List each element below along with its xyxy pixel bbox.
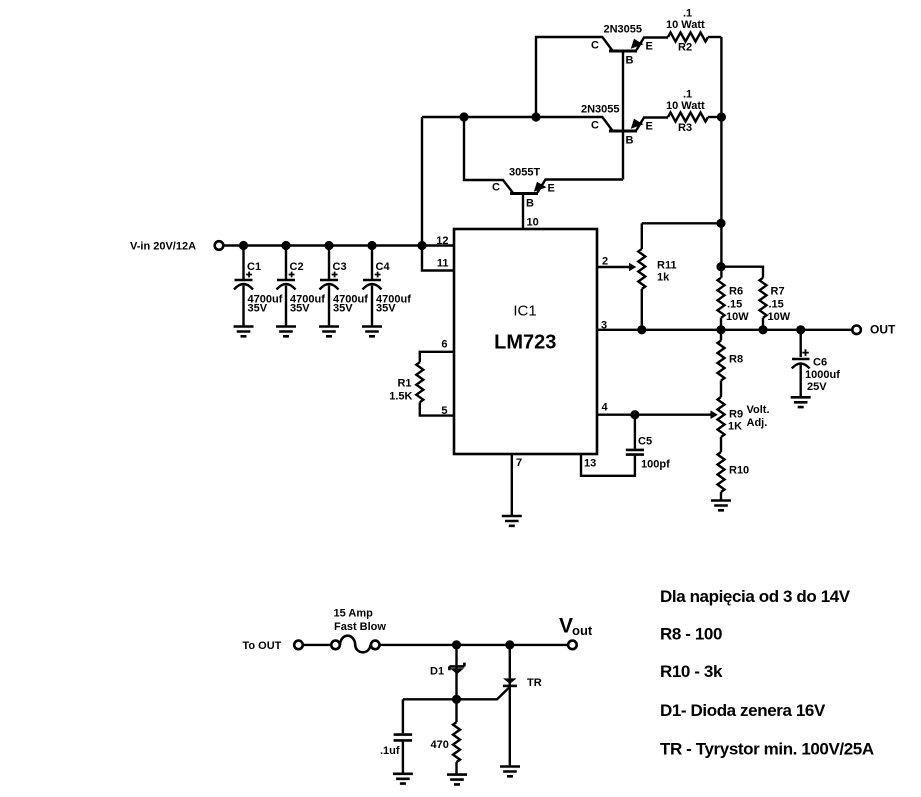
svg-text:.1: .1 [683,89,692,101]
svg-text:C4: C4 [376,261,391,273]
svg-text:470: 470 [431,739,449,751]
svg-text:E: E [646,41,653,53]
svg-text:10 Watt: 10 Watt [666,100,705,112]
svg-text:.15: .15 [727,299,742,311]
svg-text:.15: .15 [769,299,784,311]
svg-text:LM723: LM723 [494,332,556,354]
svg-text:C6: C6 [813,357,827,369]
svg-text:35V: 35V [248,303,268,315]
svg-text:C5: C5 [638,436,652,448]
svg-text:V: V [559,615,573,638]
svg-text:D1: D1 [430,666,444,678]
svg-text:35V: 35V [290,303,310,315]
svg-text:Dla napięcia od 3 do 14V: Dla napięcia od 3 do 14V [660,587,851,606]
svg-text:35V: 35V [333,303,353,315]
svg-text:R6: R6 [729,286,743,298]
svg-text:2N3055: 2N3055 [581,104,620,116]
svg-text:10 Watt: 10 Watt [666,19,705,31]
svg-text:100pf: 100pf [641,459,670,471]
svg-text:B: B [526,198,534,210]
svg-text:V-in 20V/12A: V-in 20V/12A [130,241,196,253]
svg-text:C: C [591,120,599,132]
svg-text:R3: R3 [678,122,692,134]
svg-text:12: 12 [436,235,448,247]
svg-text:R11: R11 [657,260,677,272]
svg-text:.1uf: .1uf [380,745,400,757]
svg-text:R2: R2 [678,42,692,54]
svg-text:R7: R7 [771,286,785,298]
svg-text:E: E [646,121,653,133]
svg-text:11: 11 [437,258,449,270]
svg-text:Fast Blow: Fast Blow [334,621,386,633]
svg-text:R10 - 3k: R10 - 3k [660,662,723,681]
svg-text:6: 6 [441,339,447,351]
svg-text:D1- Dioda zenera 16V: D1- Dioda zenera 16V [660,701,826,720]
svg-text:2N3055: 2N3055 [604,24,643,36]
svg-text:R8 - 100: R8 - 100 [660,625,722,644]
svg-text:Adj.: Adj. [747,417,768,429]
svg-text:1.5K: 1.5K [389,391,412,403]
svg-text:10W: 10W [726,311,749,323]
svg-text:TR - Tyrystor min. 100V/25A: TR - Tyrystor min. 100V/25A [660,740,874,759]
svg-text:35V: 35V [376,303,396,315]
svg-text:13: 13 [584,458,596,470]
svg-text:R10: R10 [729,465,749,477]
svg-text:C1: C1 [247,261,261,273]
svg-text:C: C [591,40,599,52]
svg-text:15 Amp: 15 Amp [334,608,374,620]
svg-text:10: 10 [527,217,539,229]
svg-text:R1: R1 [397,378,411,390]
svg-text:C2: C2 [290,261,304,273]
svg-text:.1: .1 [683,8,692,20]
svg-text:4: 4 [602,402,609,414]
svg-text:3055T: 3055T [509,167,540,179]
svg-text:To OUT: To OUT [243,640,282,652]
svg-text:1K: 1K [728,421,742,433]
svg-text:2: 2 [602,256,608,268]
svg-text:IC1: IC1 [513,303,536,320]
svg-text:B: B [626,135,634,147]
svg-text:E: E [548,183,555,195]
svg-text:10W: 10W [768,311,791,323]
svg-text:C3: C3 [333,261,347,273]
svg-text:Volt.: Volt. [747,404,770,416]
svg-text:1000uf: 1000uf [805,369,840,381]
svg-text:out: out [572,623,593,638]
svg-text:R9: R9 [729,409,743,421]
svg-text:OUT: OUT [870,323,896,337]
svg-text:25V: 25V [807,381,827,393]
svg-text:B: B [626,55,634,67]
svg-text:7: 7 [516,457,522,469]
svg-text:C: C [492,182,500,194]
svg-text:1k: 1k [657,272,670,284]
svg-text:R8: R8 [729,354,743,366]
svg-text:TR: TR [527,677,542,689]
